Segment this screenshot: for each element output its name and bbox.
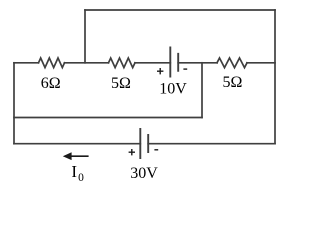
- wire bottom right segment: [148, 143, 275, 145]
- svg-text:0: 0: [78, 172, 84, 184]
- wire between 5ohm and 10V battery: [135, 62, 170, 64]
- battery V1 10V plates: [170, 48, 178, 77]
- wire middle row left lead: [14, 62, 39, 64]
- resistor R2 5ohm: [109, 58, 136, 68]
- wire vertical from top wire down to middle node: [84, 10, 86, 63]
- wire bottom left segment: [14, 143, 140, 145]
- current arrow I0 pointing left: [63, 152, 89, 160]
- svg-text:I: I: [71, 162, 77, 181]
- minus sign of 10V battery: [183, 68, 187, 70]
- plus sign of 10V battery: [157, 68, 163, 74]
- wire battery 10V to node: [178, 62, 217, 64]
- resistor R1 6ohm: [39, 58, 65, 68]
- svg-text:10V: 10V: [159, 81, 187, 98]
- wire left vertical side: [13, 63, 15, 144]
- wire inner vertical at node B: [201, 63, 203, 118]
- svg-text:5Ω: 5Ω: [223, 74, 243, 91]
- minus sign of 30V battery: [154, 149, 158, 151]
- resistor R3 5ohm: [217, 58, 247, 68]
- wire right vertical side: [274, 10, 276, 144]
- svg-text:5Ω: 5Ω: [111, 75, 131, 92]
- wire top horizontal: [85, 9, 275, 11]
- battery V2 30V plates: [140, 129, 148, 158]
- svg-text:6Ω: 6Ω: [41, 75, 61, 92]
- wire right 5ohm to right side: [247, 62, 275, 64]
- wire inner lower horizontal: [14, 117, 202, 119]
- svg-text:30V: 30V: [130, 165, 158, 182]
- plus sign of 30V battery: [129, 149, 135, 155]
- wire between 6ohm and 5ohm: [65, 62, 109, 64]
